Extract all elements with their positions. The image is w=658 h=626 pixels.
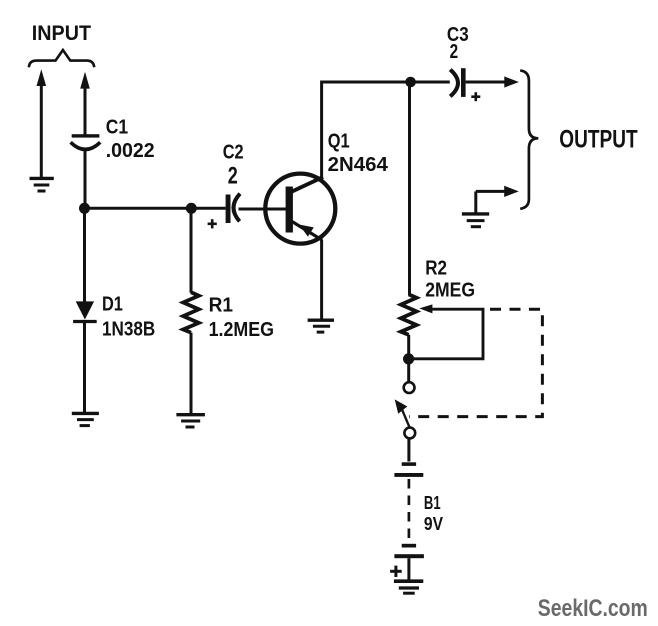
svg-text:.0022: .0022 bbox=[106, 140, 155, 162]
node: base rail junction left bbox=[79, 203, 90, 214]
svg-text:OUTPUT: OUTPUT bbox=[559, 125, 637, 153]
switch contact bottom bbox=[404, 428, 415, 439]
transistor Q1 bbox=[265, 174, 335, 244]
wire battery to ground bbox=[407, 558, 410, 580]
wire output lower bbox=[476, 190, 506, 193]
svg-text:INPUT: INPUT bbox=[32, 22, 91, 45]
wire input left bbox=[40, 84, 43, 178]
svg-text:B1: B1 bbox=[424, 493, 441, 513]
wire input right lower bbox=[84, 149, 87, 209]
resistor R1 bbox=[183, 292, 199, 332]
wire D1 bottom bbox=[83, 322, 86, 414]
wire R1 top bbox=[190, 208, 193, 292]
label C3 plus bbox=[471, 92, 480, 101]
wire output ground stub bbox=[474, 191, 477, 213]
wire switch stub top bbox=[407, 359, 410, 382]
capacitor C2 bbox=[226, 194, 240, 223]
wire collector riser bbox=[322, 82, 450, 178]
svg-text:Q1: Q1 bbox=[328, 130, 350, 152]
node: collector rail junction bbox=[405, 77, 416, 88]
wire base rail bbox=[85, 207, 226, 210]
wire wiper loop bbox=[409, 309, 483, 359]
svg-text:2: 2 bbox=[450, 41, 459, 63]
svg-text:1.2MEG: 1.2MEG bbox=[209, 319, 274, 341]
svg-text:C2: C2 bbox=[223, 141, 244, 163]
svg-text:D1: D1 bbox=[102, 293, 123, 315]
output brace bbox=[520, 70, 538, 208]
wire emitter riser bbox=[320, 240, 323, 321]
battery B1 top cell bbox=[394, 462, 423, 477]
wire R2 bottom bbox=[407, 335, 410, 364]
ground input bbox=[30, 178, 54, 191]
svg-text:1N38B: 1N38B bbox=[102, 319, 155, 341]
label C2 plus bbox=[208, 219, 217, 228]
wire D1 top bbox=[83, 208, 86, 302]
switch blade arrow bbox=[395, 399, 410, 427]
svg-text:R2: R2 bbox=[425, 258, 447, 280]
capacitor C1 bbox=[71, 134, 101, 149]
wire C2 to base bbox=[239, 208, 287, 211]
wire C3 to output arrow bbox=[466, 81, 506, 84]
ground battery bbox=[394, 581, 423, 593]
dashed link pot to switch bbox=[409, 309, 542, 416]
resistor R2 bbox=[401, 294, 417, 334]
wire switch to battery bbox=[407, 439, 410, 462]
svg-text:2MEG: 2MEG bbox=[425, 279, 475, 301]
output arrow top bbox=[504, 76, 519, 87]
svg-text:9V: 9V bbox=[424, 514, 443, 534]
label battery plus bbox=[390, 566, 402, 577]
node: R2 wiper junction bbox=[403, 353, 414, 364]
svg-text:C1: C1 bbox=[106, 116, 128, 138]
switch contact top bbox=[404, 382, 415, 393]
battery dashed middle bbox=[408, 479, 411, 542]
ground R1 bbox=[176, 415, 205, 427]
wire R2 riser bbox=[408, 82, 411, 295]
battery B1 bottom cell bbox=[394, 544, 424, 558]
input brace bbox=[29, 50, 94, 67]
diode D1 bbox=[73, 301, 97, 321]
capacitor C3 bbox=[450, 68, 465, 97]
svg-text:2N464: 2N464 bbox=[328, 154, 389, 176]
svg-text:2: 2 bbox=[228, 163, 238, 190]
wire input right upper bbox=[84, 87, 87, 135]
output arrow bottom bbox=[504, 186, 519, 197]
input arrow left bbox=[37, 69, 47, 86]
svg-text:R1: R1 bbox=[209, 294, 233, 316]
ground Q1 emitter bbox=[308, 320, 334, 332]
svg-text:SeekIC.com: SeekIC.com bbox=[538, 595, 648, 622]
ground D1 bbox=[72, 413, 99, 425]
input arrow right bbox=[80, 72, 90, 89]
wire R1 bottom bbox=[190, 333, 193, 415]
node: R1 junction bbox=[186, 203, 197, 214]
ground output bbox=[462, 214, 489, 227]
potentiometer wiper arrow bbox=[419, 304, 432, 313]
